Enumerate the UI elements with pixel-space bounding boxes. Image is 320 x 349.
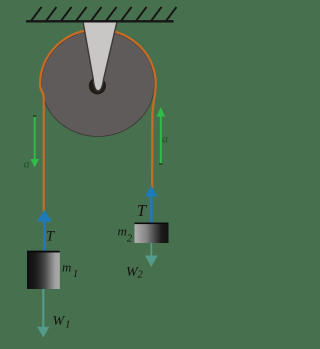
tension arrow T (left, up) [37, 210, 52, 251]
svg-text:a: a [162, 132, 168, 146]
svg-text:a: a [24, 157, 30, 171]
bracket U-support [83, 22, 117, 91]
weight arrow W2 (down) [145, 243, 158, 267]
tension arrow T (right, up) [145, 186, 158, 224]
acceleration arrow a (right, up) [157, 107, 166, 165]
ceiling hatches [31, 7, 177, 21]
acceleration arrow a (left, down) [30, 115, 39, 167]
mass m1 block [27, 251, 60, 289]
weight arrow W1 (down) [37, 289, 49, 338]
svg-text:T: T [46, 229, 55, 245]
wire rope over pulley [40, 29, 156, 212]
ceiling line [26, 20, 174, 22]
axle [89, 77, 106, 94]
mass m2 block [135, 223, 169, 244]
pulley disc [41, 31, 154, 137]
